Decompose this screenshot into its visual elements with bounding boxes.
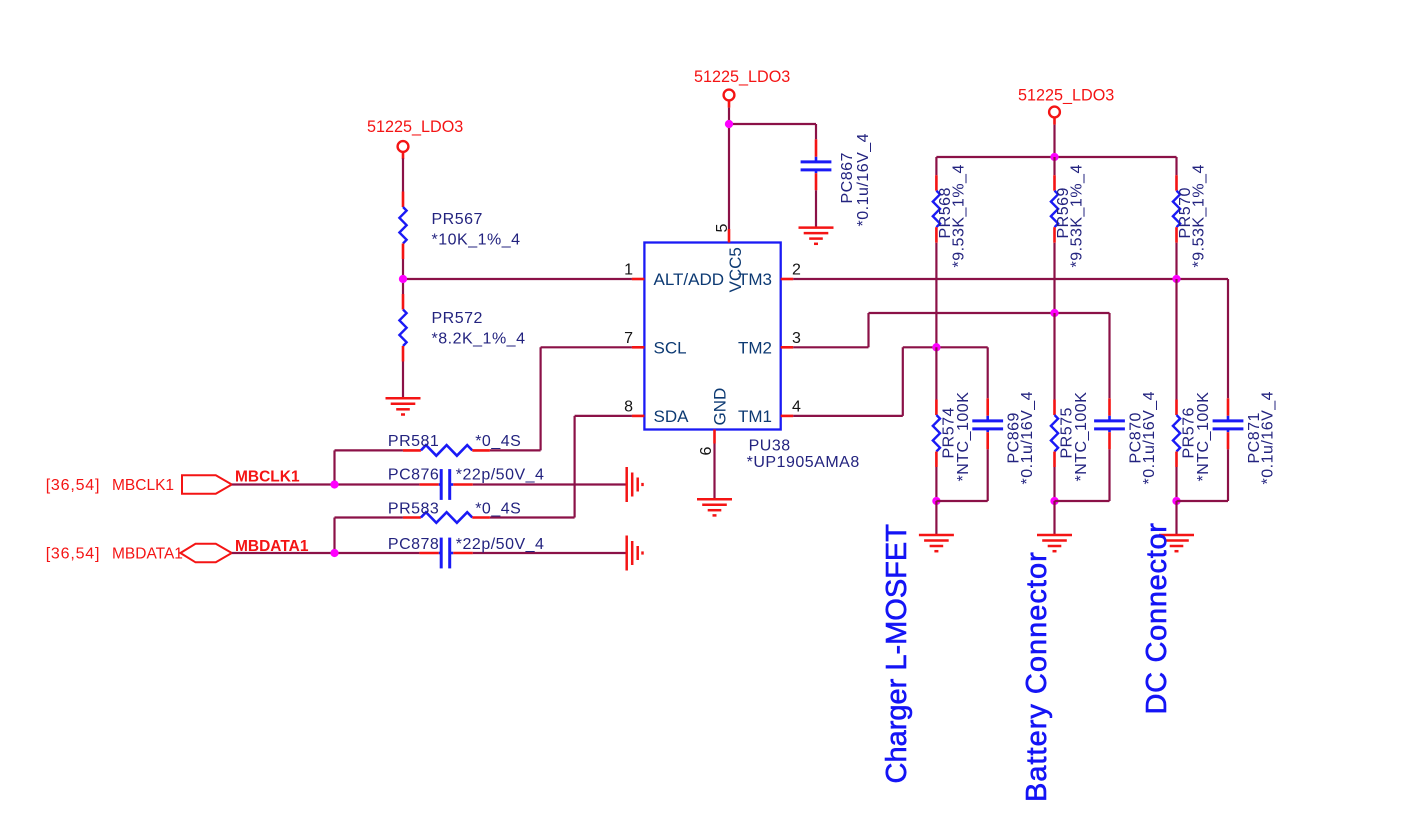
svg-text:*9.53K_1%_4: *9.53K_1%_4: [1069, 164, 1086, 267]
svg-text:Battery Connector: Battery Connector: [1021, 551, 1053, 802]
svg-text:*22p/50V_4: *22p/50V_4: [456, 536, 545, 553]
svg-text:DC Connector: DC Connector: [1141, 522, 1173, 714]
svg-text:MBDATA1: MBDATA1: [112, 546, 183, 563]
svg-text:5: 5: [714, 224, 731, 233]
svg-text:*22p/50V_4: *22p/50V_4: [456, 467, 545, 484]
svg-text:PR581: PR581: [388, 433, 439, 450]
svg-text:PC878: PC878: [388, 536, 439, 553]
svg-text:SCL: SCL: [654, 339, 687, 358]
svg-text:PC876: PC876: [388, 467, 439, 484]
svg-text:*NTC_100K: *NTC_100K: [1195, 392, 1212, 482]
svg-text:1: 1: [624, 262, 633, 279]
svg-text:*9.53K_1%_4: *9.53K_1%_4: [950, 164, 967, 267]
svg-text:51225_LDO3: 51225_LDO3: [694, 68, 790, 86]
svg-text:*UP1905AMA8: *UP1905AMA8: [747, 454, 860, 471]
svg-text:7: 7: [624, 330, 633, 347]
svg-text:Charger L-MOSFET: Charger L-MOSFET: [881, 524, 913, 784]
svg-text:*0.1u/16V_4: *0.1u/16V_4: [1141, 391, 1158, 485]
svg-text:MBCLK1: MBCLK1: [235, 468, 300, 485]
svg-text:VCC5: VCC5: [726, 247, 745, 292]
svg-text:6: 6: [698, 447, 715, 456]
svg-text:MBCLK1: MBCLK1: [112, 477, 174, 494]
svg-text:*0.1u/16V_4: *0.1u/16V_4: [1019, 391, 1036, 485]
svg-text:51225_LDO3: 51225_LDO3: [367, 118, 463, 136]
svg-text:*0.1u/16V_4: *0.1u/16V_4: [1259, 391, 1276, 485]
svg-text:*0.1u/16V_4: *0.1u/16V_4: [855, 133, 872, 227]
svg-text:SDA: SDA: [654, 407, 690, 426]
svg-text:*NTC_100K: *NTC_100K: [955, 392, 972, 482]
svg-text:MBDATA1: MBDATA1: [235, 538, 309, 555]
svg-text:[36,54]: [36,54]: [46, 546, 101, 563]
svg-text:PR583: PR583: [388, 500, 439, 517]
svg-text:*9.53K_1%_4: *9.53K_1%_4: [1191, 164, 1208, 267]
svg-text:TM1: TM1: [738, 407, 772, 426]
svg-text:PR572: PR572: [432, 310, 483, 327]
svg-text:3: 3: [792, 330, 801, 347]
svg-text:*0_4S: *0_4S: [475, 500, 521, 517]
svg-text:4: 4: [792, 398, 801, 415]
svg-text:51225_LDO3: 51225_LDO3: [1018, 87, 1114, 105]
svg-text:*0_4S: *0_4S: [475, 433, 521, 450]
svg-text:[36,54]: [36,54]: [46, 477, 101, 494]
svg-text:GND: GND: [711, 388, 730, 426]
svg-text:*8.2K_1%_4: *8.2K_1%_4: [432, 331, 526, 348]
svg-text:PC867: PC867: [839, 152, 856, 203]
svg-text:TM2: TM2: [738, 339, 772, 358]
svg-text:PR567: PR567: [432, 211, 483, 228]
svg-text:PU38: PU38: [749, 438, 791, 455]
svg-text:8: 8: [624, 398, 633, 415]
svg-text:ALT/ADD: ALT/ADD: [654, 270, 725, 289]
svg-text:2: 2: [792, 262, 801, 279]
svg-text:*NTC_100K: *NTC_100K: [1073, 392, 1090, 482]
svg-text:*10K_1%_4: *10K_1%_4: [432, 231, 521, 248]
